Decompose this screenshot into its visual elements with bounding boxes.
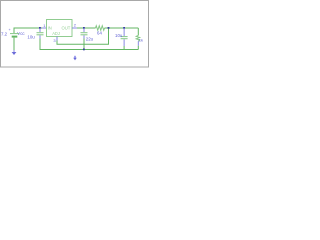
capacitor C2 pin stub bottom (blue) [83, 35, 85, 38]
svg-text:22u: 22u [86, 36, 94, 41]
battery V1 bottom plate [12, 36, 18, 38]
svg-text:10u: 10u [27, 34, 35, 39]
wire C2 down to rail [83, 39, 85, 50]
capacitor C1 pin stub top (blue) [39, 28, 41, 32]
node junction C2 on rail [83, 49, 85, 51]
svg-text:ADJ: ADJ [52, 31, 60, 36]
ground terminal arrow [13, 50, 15, 52]
resistor R1 zigzag [96, 26, 105, 31]
sheet background [0, 0, 150, 69]
node junction at C3 [123, 27, 125, 29]
wire C3 down to rail [123, 46, 125, 50]
sheet origin marker arrow [74, 56, 76, 58]
wire R2 to rail [137, 46, 139, 50]
wire top rail right corner down [137, 28, 139, 35]
sheet border frame [1, 1, 149, 68]
regulator U1 pin 3 stub (ADJ, blue) [56, 37, 58, 41]
capacitor C3 pin stub bottom (blue) [123, 39, 125, 46]
capacitor C1 plates [37, 32, 44, 34]
node junction at C2 [83, 27, 85, 29]
resistor R2 vertical zigzag [136, 35, 140, 41]
capacitor C3 pin stub top (blue) [123, 28, 125, 36]
capacitor C2 plates [81, 32, 88, 34]
regulator U1 pin 1 stub (IN, blue) [42, 27, 47, 29]
wire OUT to resistor [77, 27, 96, 29]
resistor R2 pin stub bottom (blue) [137, 41, 139, 46]
wire C1 down to ground rail [40, 39, 138, 50]
svg-text:7.2: 7.2 [1, 31, 8, 36]
node junction at input cap [39, 27, 41, 29]
regulator U1 pin 2 stub (OUT, blue) [72, 27, 77, 29]
wire ADJ down and right to node [57, 28, 109, 44]
svg-text:64: 64 [97, 30, 102, 35]
svg-text:IN: IN [48, 26, 52, 31]
capacitor C1 pin stub bottom (blue) [39, 35, 41, 38]
op-amp U1 regulator body box [47, 20, 73, 37]
wire battery top to rail corner [14, 28, 42, 33]
svg-text:10u: 10u [115, 33, 123, 38]
svg-text:OUT: OUT [62, 26, 71, 31]
wire battery bottom down [13, 38, 15, 50]
capacitor C3 plates [121, 36, 128, 38]
capacitor C2 pin stub top (blue) [83, 28, 85, 32]
node junction at ADJ feedback [108, 27, 110, 29]
battery V1 top plate [10, 33, 19, 35]
svg-text:1k: 1k [139, 38, 143, 43]
wire resistor to right corner [105, 27, 139, 29]
